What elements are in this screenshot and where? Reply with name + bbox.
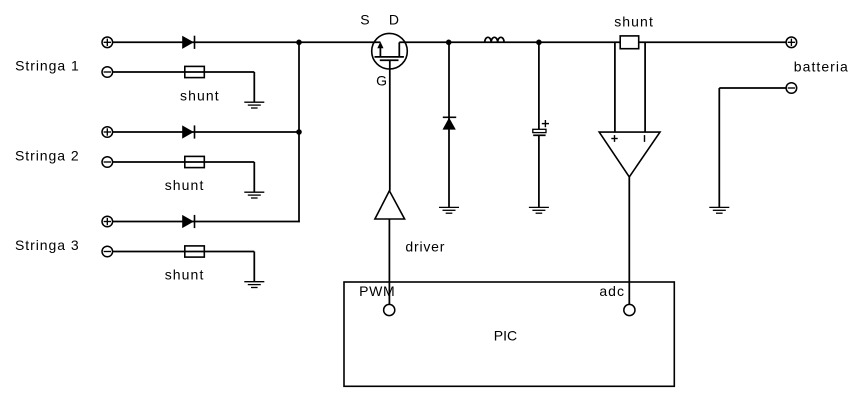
svg-text:PIC: PIC <box>494 328 517 344</box>
svg-text:G: G <box>376 73 387 89</box>
svg-text:shunt: shunt <box>180 88 220 104</box>
svg-text:shunt: shunt <box>165 177 205 193</box>
svg-text:D: D <box>389 12 399 28</box>
svg-text:PWM: PWM <box>359 283 395 299</box>
svg-text:adc: adc <box>599 283 625 299</box>
svg-text:shunt: shunt <box>165 267 205 283</box>
svg-text:Stringa 2: Stringa 2 <box>15 148 80 164</box>
svg-text:Stringa 3: Stringa 3 <box>15 237 80 253</box>
svg-text:S: S <box>360 12 369 28</box>
svg-text:shunt: shunt <box>614 14 654 30</box>
svg-text:Stringa 1: Stringa 1 <box>15 58 80 74</box>
svg-text:batteria: batteria <box>794 59 849 75</box>
svg-text:driver: driver <box>405 239 445 255</box>
